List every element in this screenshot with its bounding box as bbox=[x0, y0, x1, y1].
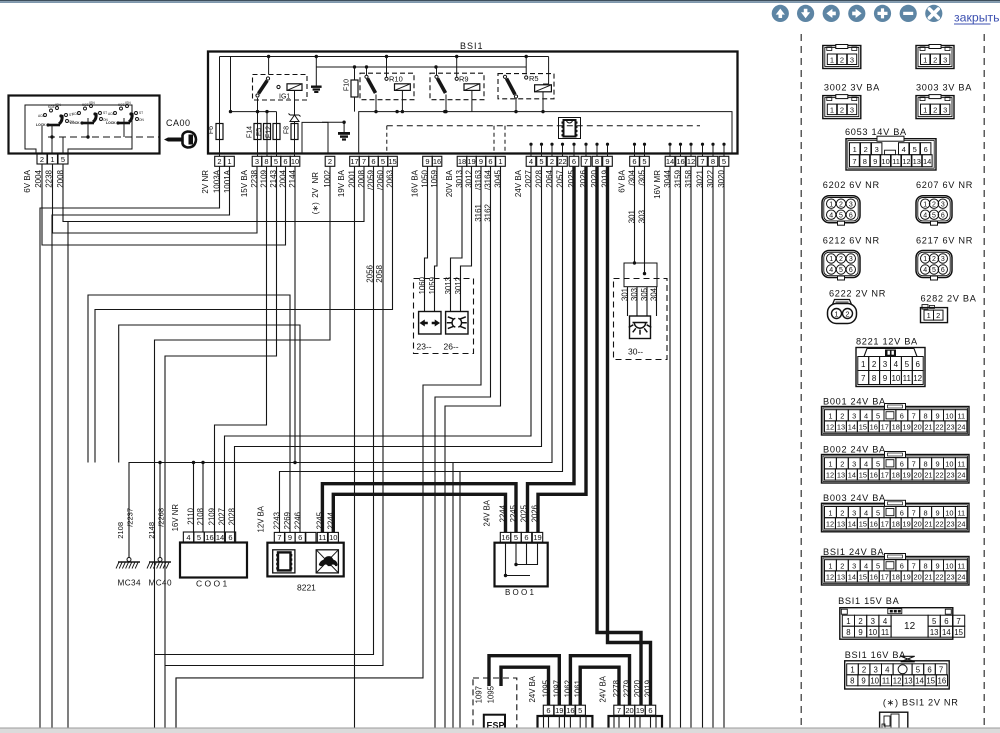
relay R9 coil bbox=[455, 77, 458, 80]
svg-text:19: 19 bbox=[903, 471, 911, 480]
fuse F8 bbox=[291, 124, 298, 140]
wires 16V MR down bbox=[669, 167, 671, 729]
svg-text:2: 2 bbox=[217, 157, 221, 166]
svg-text:17: 17 bbox=[881, 423, 889, 432]
toolbar button pan-down bbox=[797, 5, 814, 22]
svg-text:14: 14 bbox=[848, 423, 856, 432]
svg-text:KGE: KGE bbox=[82, 103, 89, 107]
svg-text:2: 2 bbox=[932, 201, 936, 208]
svg-text:24V BA: 24V BA bbox=[528, 675, 537, 702]
dashed unit ESP box bbox=[473, 678, 517, 733]
relay R10 contact bbox=[365, 75, 368, 78]
svg-text:14: 14 bbox=[666, 157, 674, 166]
toolbar button pan-right bbox=[848, 5, 865, 22]
svg-text:2056: 2056 bbox=[365, 264, 374, 282]
wire 1095 thick bbox=[501, 667, 549, 705]
svg-text:2: 2 bbox=[933, 55, 937, 64]
svg-text:23--: 23-- bbox=[417, 342, 432, 352]
svg-text:1095: 1095 bbox=[486, 685, 495, 703]
svg-text:MC40: MC40 bbox=[149, 579, 172, 588]
svg-text:16: 16 bbox=[205, 533, 213, 542]
svg-text:30--: 30-- bbox=[628, 347, 643, 357]
svg-text:F6: F6 bbox=[208, 126, 215, 134]
svg-text:19: 19 bbox=[636, 706, 644, 715]
sidebar connector round2 6222 bbox=[828, 304, 857, 324]
svg-text:/2268: /2268 bbox=[156, 508, 165, 527]
svg-text:3003 3V BA: 3003 3V BA bbox=[916, 83, 972, 93]
svg-text:1: 1 bbox=[498, 157, 502, 166]
wire 2056 bbox=[155, 167, 374, 655]
sidebar connector BSI 16pin BSI1-16 bbox=[845, 661, 950, 689]
svg-text:24: 24 bbox=[957, 573, 965, 582]
svg-text:3: 3 bbox=[852, 508, 856, 517]
svg-text:6: 6 bbox=[900, 460, 904, 469]
svg-text:21: 21 bbox=[924, 423, 932, 432]
wire 2008 CA00 to BSI bbox=[63, 164, 364, 222]
sidebar connector 3pin 3003 top bbox=[916, 46, 954, 69]
svg-text:1059: 1059 bbox=[428, 277, 437, 294]
svg-text:2245: 2245 bbox=[509, 504, 518, 522]
svg-text:ACC: ACC bbox=[72, 112, 79, 116]
svg-text:1: 1 bbox=[923, 201, 927, 208]
svg-text:2: 2 bbox=[858, 617, 862, 626]
svg-text:1: 1 bbox=[923, 55, 927, 64]
BSI1 ground symbol 2 bbox=[343, 122, 345, 132]
svg-text:(∗) BSI1 2V NR: (∗) BSI1 2V NR bbox=[883, 697, 959, 707]
svg-text:ACC: ACC bbox=[108, 112, 115, 116]
ground MC40 bbox=[158, 558, 162, 562]
BSI1 inner lower box bbox=[359, 112, 732, 153]
svg-text:2027: 2027 bbox=[217, 508, 226, 525]
svg-text:7: 7 bbox=[852, 157, 856, 166]
svg-text:IGN: IGN bbox=[89, 101, 95, 105]
svg-text:5: 5 bbox=[642, 157, 646, 166]
svg-text:24: 24 bbox=[957, 520, 965, 529]
wire 2245 thick bbox=[322, 484, 516, 533]
relay R10 coil bbox=[385, 77, 388, 80]
svg-text:5: 5 bbox=[578, 706, 582, 715]
svg-text:ST: ST bbox=[139, 111, 143, 115]
sidebar separator dashed right bbox=[983, 34, 985, 733]
svg-text:20: 20 bbox=[913, 471, 921, 480]
relay R5 contact bbox=[503, 75, 506, 78]
svg-text:F14: F14 bbox=[246, 126, 253, 138]
wire 303 /305 bbox=[644, 167, 646, 274]
svg-text:3: 3 bbox=[850, 55, 854, 64]
relay IG1 coil bbox=[287, 84, 302, 91]
svg-text:2: 2 bbox=[839, 201, 843, 208]
svg-text:8: 8 bbox=[924, 562, 928, 571]
svg-text:4: 4 bbox=[829, 267, 833, 274]
sidebar connector BSI 15pin BSI1-15 bbox=[840, 608, 953, 640]
svg-text:6202 6V NR: 6202 6V NR bbox=[823, 180, 880, 190]
svg-text:13: 13 bbox=[837, 520, 845, 529]
BSI1 pin stubs right groups bbox=[529, 143, 532, 146]
svg-text:17: 17 bbox=[881, 520, 889, 529]
svg-text:1: 1 bbox=[830, 55, 834, 64]
svg-text:21: 21 bbox=[924, 471, 932, 480]
svg-text:1: 1 bbox=[923, 256, 927, 263]
svg-text:3: 3 bbox=[849, 256, 853, 263]
C001 pin row bbox=[183, 532, 193, 542]
svg-text:15: 15 bbox=[859, 471, 867, 480]
svg-text:1: 1 bbox=[829, 256, 833, 263]
svg-text:14: 14 bbox=[848, 471, 856, 480]
svg-text:303: 303 bbox=[630, 288, 639, 301]
sidebar connector 24pin B002 bbox=[822, 455, 970, 484]
svg-text:15: 15 bbox=[926, 676, 935, 685]
svg-text:21: 21 bbox=[924, 520, 932, 529]
svg-text:16: 16 bbox=[870, 423, 878, 432]
wire 2020 thick bbox=[597, 167, 641, 706]
svg-text:6207 6V NR: 6207 6V NR bbox=[916, 180, 973, 190]
svg-text:2245: 2245 bbox=[315, 511, 324, 529]
svg-text:19: 19 bbox=[903, 423, 911, 432]
svg-text:24: 24 bbox=[957, 423, 965, 432]
svg-text:1: 1 bbox=[846, 617, 850, 626]
svg-text:5: 5 bbox=[61, 155, 65, 164]
svg-text:11: 11 bbox=[903, 374, 912, 383]
wire 2019 thick bbox=[608, 167, 651, 706]
svg-text:2: 2 bbox=[839, 256, 843, 263]
svg-text:IGN: IGN bbox=[125, 101, 131, 105]
svg-text:15: 15 bbox=[859, 520, 867, 529]
svg-text:BSI1 15V BA: BSI1 15V BA bbox=[838, 596, 899, 606]
sidebar connector small BSI1 2V bbox=[880, 712, 908, 733]
relay R10 dashed box bbox=[360, 73, 414, 100]
svg-text:2110: 2110 bbox=[186, 507, 195, 524]
svg-text:4: 4 bbox=[529, 157, 533, 166]
sidebar connector 12pin 8221 bbox=[856, 348, 925, 387]
svg-text:3013: 3013 bbox=[444, 277, 453, 294]
svg-text:21: 21 bbox=[924, 573, 932, 582]
fuse F10 bbox=[351, 80, 358, 97]
svg-text:F12: F12 bbox=[265, 126, 272, 138]
svg-text:2: 2 bbox=[872, 360, 877, 369]
svg-text:19V BA: 19V BA bbox=[337, 169, 346, 197]
wire 2238 CA00 to BSI bbox=[53, 164, 258, 233]
svg-text:1: 1 bbox=[853, 145, 857, 154]
svg-text:8221: 8221 bbox=[297, 583, 316, 593]
CA00 switch wafer 3 bbox=[114, 112, 117, 115]
relay R9 contact bbox=[435, 75, 438, 78]
B001 pin row bbox=[500, 532, 510, 542]
relay R5 coil bbox=[525, 76, 528, 79]
svg-text:23: 23 bbox=[946, 573, 954, 582]
svg-text:2109: 2109 bbox=[207, 508, 216, 525]
bottom status strip bbox=[0, 729, 1000, 733]
CA00 pin row 2 1 5 bbox=[37, 154, 47, 164]
svg-text:7: 7 bbox=[912, 562, 916, 571]
svg-text:6: 6 bbox=[546, 706, 550, 715]
svg-text:13: 13 bbox=[904, 676, 913, 685]
BSI1 inner dashed line bbox=[387, 125, 700, 127]
svg-text:2: 2 bbox=[862, 665, 866, 674]
svg-text:1: 1 bbox=[830, 105, 834, 114]
svg-text:12: 12 bbox=[826, 423, 834, 432]
toolbar button pan-left bbox=[823, 5, 840, 22]
svg-text:9: 9 bbox=[861, 676, 865, 685]
wire 2026 thick bbox=[538, 167, 586, 533]
svg-text:9: 9 bbox=[479, 157, 483, 166]
svg-text:10: 10 bbox=[881, 157, 889, 166]
toolbar button zoom-out bbox=[900, 5, 917, 22]
svg-text:4: 4 bbox=[885, 665, 890, 674]
svg-text:F10: F10 bbox=[343, 79, 350, 91]
svg-text:6222 2V NR: 6222 2V NR bbox=[829, 288, 886, 298]
BSI1 pin group 24V BA bbox=[526, 156, 536, 166]
svg-text:3: 3 bbox=[941, 201, 945, 208]
C001 stub wires bbox=[214, 532, 216, 543]
svg-text:/2237: /2237 bbox=[125, 508, 134, 527]
svg-text:1061: 1061 bbox=[573, 680, 582, 697]
svg-text:22: 22 bbox=[935, 471, 943, 480]
sidebar separator dashed left bbox=[800, 34, 802, 733]
svg-text:11: 11 bbox=[882, 676, 890, 685]
svg-text:18: 18 bbox=[892, 573, 900, 582]
svg-text:2: 2 bbox=[840, 412, 844, 421]
svg-text:10: 10 bbox=[945, 562, 953, 571]
svg-text:23: 23 bbox=[946, 471, 954, 480]
BSI1 pin group 16V BA bbox=[423, 156, 433, 166]
svg-text:10: 10 bbox=[291, 157, 299, 166]
wire 3161 bbox=[176, 167, 481, 729]
svg-text:10: 10 bbox=[870, 676, 879, 685]
svg-text:22: 22 bbox=[935, 423, 943, 432]
svg-text:11: 11 bbox=[957, 508, 965, 517]
svg-text:R9: R9 bbox=[459, 75, 469, 84]
svg-text:305: 305 bbox=[640, 287, 649, 301]
svg-text:2028: 2028 bbox=[227, 508, 236, 525]
svg-text:3: 3 bbox=[941, 256, 945, 263]
svg-text:13: 13 bbox=[837, 423, 845, 432]
wire stub down B bbox=[459, 472, 461, 729]
svg-text:18: 18 bbox=[892, 520, 900, 529]
svg-text:5: 5 bbox=[932, 617, 937, 626]
svg-text:MC34: MC34 bbox=[118, 579, 141, 588]
svg-text:8: 8 bbox=[846, 628, 850, 637]
svg-text:13: 13 bbox=[913, 157, 921, 166]
wire 2058 bbox=[165, 167, 383, 666]
svg-text:BSI1 16V BA: BSI1 16V BA bbox=[845, 650, 906, 660]
svg-text:9: 9 bbox=[858, 628, 862, 637]
svg-text:2279: 2279 bbox=[622, 680, 631, 697]
svg-text:17: 17 bbox=[350, 157, 358, 166]
svg-text:8: 8 bbox=[924, 508, 928, 517]
svg-text:24V BA: 24V BA bbox=[482, 499, 491, 526]
ground MC34 bbox=[127, 558, 131, 562]
svg-text:LOCK: LOCK bbox=[70, 121, 80, 125]
svg-text:2025: 2025 bbox=[519, 504, 528, 522]
bottom connector 2 box bbox=[609, 716, 663, 733]
svg-text:6: 6 bbox=[941, 212, 945, 219]
svg-text:26--: 26-- bbox=[444, 342, 459, 352]
svg-text:CA00: CA00 bbox=[166, 118, 191, 128]
sidebar connector 24pin BSI1-24 bbox=[822, 557, 970, 586]
svg-text:6: 6 bbox=[941, 267, 945, 274]
svg-text:6: 6 bbox=[488, 157, 492, 166]
svg-text:ON: ON bbox=[139, 118, 144, 122]
svg-text:5: 5 bbox=[932, 267, 936, 274]
svg-text:1: 1 bbox=[850, 665, 854, 674]
svg-text:22: 22 bbox=[935, 520, 943, 529]
unit 23 icon turn signals bbox=[419, 312, 441, 335]
svg-text:6: 6 bbox=[849, 267, 853, 274]
svg-text:9: 9 bbox=[288, 533, 292, 542]
svg-text:R5: R5 bbox=[529, 74, 539, 83]
BSI1 pin group 2V NR bbox=[215, 156, 225, 166]
svg-text:5: 5 bbox=[514, 533, 518, 542]
sidebar connector 14pin 6053 bbox=[846, 139, 936, 170]
svg-text:24: 24 bbox=[957, 471, 965, 480]
svg-text:8: 8 bbox=[924, 412, 928, 421]
svg-text:14: 14 bbox=[923, 157, 931, 166]
svg-text:20V BA: 20V BA bbox=[445, 169, 454, 197]
svg-text:14: 14 bbox=[216, 533, 224, 542]
svg-text:2: 2 bbox=[550, 157, 554, 166]
svg-text:3: 3 bbox=[255, 157, 259, 166]
svg-text:5: 5 bbox=[274, 157, 278, 166]
svg-text:3: 3 bbox=[852, 412, 856, 421]
ESP box bbox=[484, 715, 505, 733]
svg-text:19: 19 bbox=[555, 706, 563, 715]
svg-text:5: 5 bbox=[839, 267, 843, 274]
svg-text:5: 5 bbox=[876, 562, 880, 571]
svg-text:B003 24V BA: B003 24V BA bbox=[823, 493, 886, 503]
svg-text:2019: 2019 bbox=[643, 680, 652, 697]
svg-text:ACC: ACC bbox=[38, 114, 45, 118]
svg-text:1062: 1062 bbox=[563, 680, 572, 697]
wire 2269 8221 bbox=[88, 295, 290, 532]
fuse F14 bbox=[254, 124, 261, 140]
svg-text:6V BA: 6V BA bbox=[617, 169, 626, 192]
BSI1 internal bus 2 bbox=[316, 66, 526, 68]
relay IG1 dashed box bbox=[253, 75, 308, 101]
BSI1 pin group 6V BA bbox=[630, 156, 640, 166]
B001 internal wires bbox=[506, 543, 531, 576]
svg-text:10: 10 bbox=[329, 533, 337, 542]
wire 2064 ground bus bbox=[129, 167, 552, 559]
wire 1001A bbox=[52, 167, 230, 729]
svg-text:7: 7 bbox=[956, 617, 960, 626]
svg-text:1: 1 bbox=[861, 360, 866, 369]
svg-text:1: 1 bbox=[828, 508, 832, 517]
svg-text:16: 16 bbox=[433, 157, 441, 166]
8221 car telematic icon bbox=[316, 550, 338, 573]
svg-text:BSI1 24V BA: BSI1 24V BA bbox=[823, 547, 884, 557]
svg-text:12: 12 bbox=[687, 157, 695, 166]
svg-text:16V MR: 16V MR bbox=[653, 170, 662, 199]
sidebar connector 24pin B003 bbox=[822, 503, 970, 532]
svg-text:5: 5 bbox=[876, 508, 880, 517]
zener diode bbox=[289, 114, 301, 122]
svg-text:2148: 2148 bbox=[147, 522, 156, 539]
svg-text:3: 3 bbox=[850, 105, 854, 114]
svg-text:23: 23 bbox=[946, 423, 954, 432]
svg-text:2: 2 bbox=[840, 460, 844, 469]
svg-text:11: 11 bbox=[957, 460, 965, 469]
wire 3012 into box 26 bbox=[461, 167, 472, 312]
svg-text:12: 12 bbox=[913, 374, 922, 383]
svg-text:1: 1 bbox=[829, 201, 833, 208]
svg-text:закрыть: закрыть bbox=[954, 11, 1000, 25]
wire branch down left third bbox=[67, 222, 69, 729]
svg-text:18: 18 bbox=[892, 423, 900, 432]
svg-text:6: 6 bbox=[927, 665, 931, 674]
svg-text:16: 16 bbox=[870, 471, 878, 480]
svg-text:1095: 1095 bbox=[541, 679, 550, 697]
svg-text:16: 16 bbox=[566, 706, 574, 715]
svg-text:16: 16 bbox=[676, 157, 684, 166]
svg-text:10: 10 bbox=[891, 374, 900, 383]
svg-text:15: 15 bbox=[859, 573, 867, 582]
svg-text:5: 5 bbox=[876, 460, 880, 469]
svg-text:19: 19 bbox=[903, 520, 911, 529]
svg-text:6: 6 bbox=[924, 145, 928, 154]
8221 IC chip icon bbox=[273, 550, 295, 573]
svg-text:IG1: IG1 bbox=[279, 94, 290, 101]
svg-text:24V BA: 24V BA bbox=[514, 169, 523, 197]
sidebar connector round6 6202 bbox=[822, 196, 860, 223]
svg-text:8: 8 bbox=[872, 374, 877, 383]
svg-text:20: 20 bbox=[625, 706, 633, 715]
svg-text:2243: 2243 bbox=[272, 512, 281, 529]
svg-text:15: 15 bbox=[859, 423, 867, 432]
svg-text:7: 7 bbox=[912, 508, 916, 517]
svg-text:9: 9 bbox=[605, 157, 609, 166]
wire 2143 long run bbox=[165, 167, 277, 729]
svg-text:2: 2 bbox=[932, 256, 936, 263]
svg-text:22: 22 bbox=[558, 157, 566, 166]
svg-text:15: 15 bbox=[388, 157, 396, 166]
wire 1059 into box 23 bbox=[435, 167, 438, 312]
svg-text:19: 19 bbox=[467, 157, 475, 166]
svg-text:17: 17 bbox=[881, 471, 889, 480]
svg-text:6053 14V BA: 6053 14V BA bbox=[845, 127, 907, 137]
svg-text:12: 12 bbox=[826, 520, 834, 529]
svg-text:BSI1: BSI1 bbox=[460, 41, 484, 51]
fuse column F14 F5 F12 wires bbox=[257, 98, 259, 156]
svg-text:1: 1 bbox=[50, 155, 54, 164]
wire 1050 into box 23 bbox=[425, 167, 428, 312]
svg-text:23: 23 bbox=[946, 520, 954, 529]
svg-text:6: 6 bbox=[228, 533, 232, 542]
svg-text:3002 3V BA: 3002 3V BA bbox=[824, 83, 880, 93]
unit 26 icon lamp bbox=[446, 312, 468, 335]
svg-text:7: 7 bbox=[617, 706, 621, 715]
wire 2063 long run bbox=[95, 167, 393, 463]
svg-text:13: 13 bbox=[837, 471, 845, 480]
svg-text:6: 6 bbox=[524, 533, 528, 542]
toolbar button close-x bbox=[925, 5, 942, 22]
svg-text:9: 9 bbox=[935, 412, 939, 421]
svg-text:5: 5 bbox=[539, 157, 543, 166]
BSI1 IC chip icon bbox=[559, 118, 581, 139]
dashed unit box 30 bbox=[614, 279, 668, 360]
svg-text:(∗) 2V NR: (∗) 2V NR bbox=[311, 172, 320, 214]
svg-text:11: 11 bbox=[319, 533, 327, 542]
svg-text:9: 9 bbox=[425, 157, 429, 166]
svg-text:2020: 2020 bbox=[633, 679, 642, 697]
svg-text:3012: 3012 bbox=[454, 277, 463, 294]
svg-text:1: 1 bbox=[923, 105, 927, 114]
svg-text:6: 6 bbox=[371, 157, 375, 166]
wire 2243 8221 to BSI pin22 bbox=[280, 167, 563, 533]
8221 pin row bbox=[274, 532, 284, 542]
svg-text:16: 16 bbox=[870, 573, 878, 582]
svg-text:16: 16 bbox=[870, 520, 878, 529]
svg-text:4: 4 bbox=[894, 360, 899, 369]
